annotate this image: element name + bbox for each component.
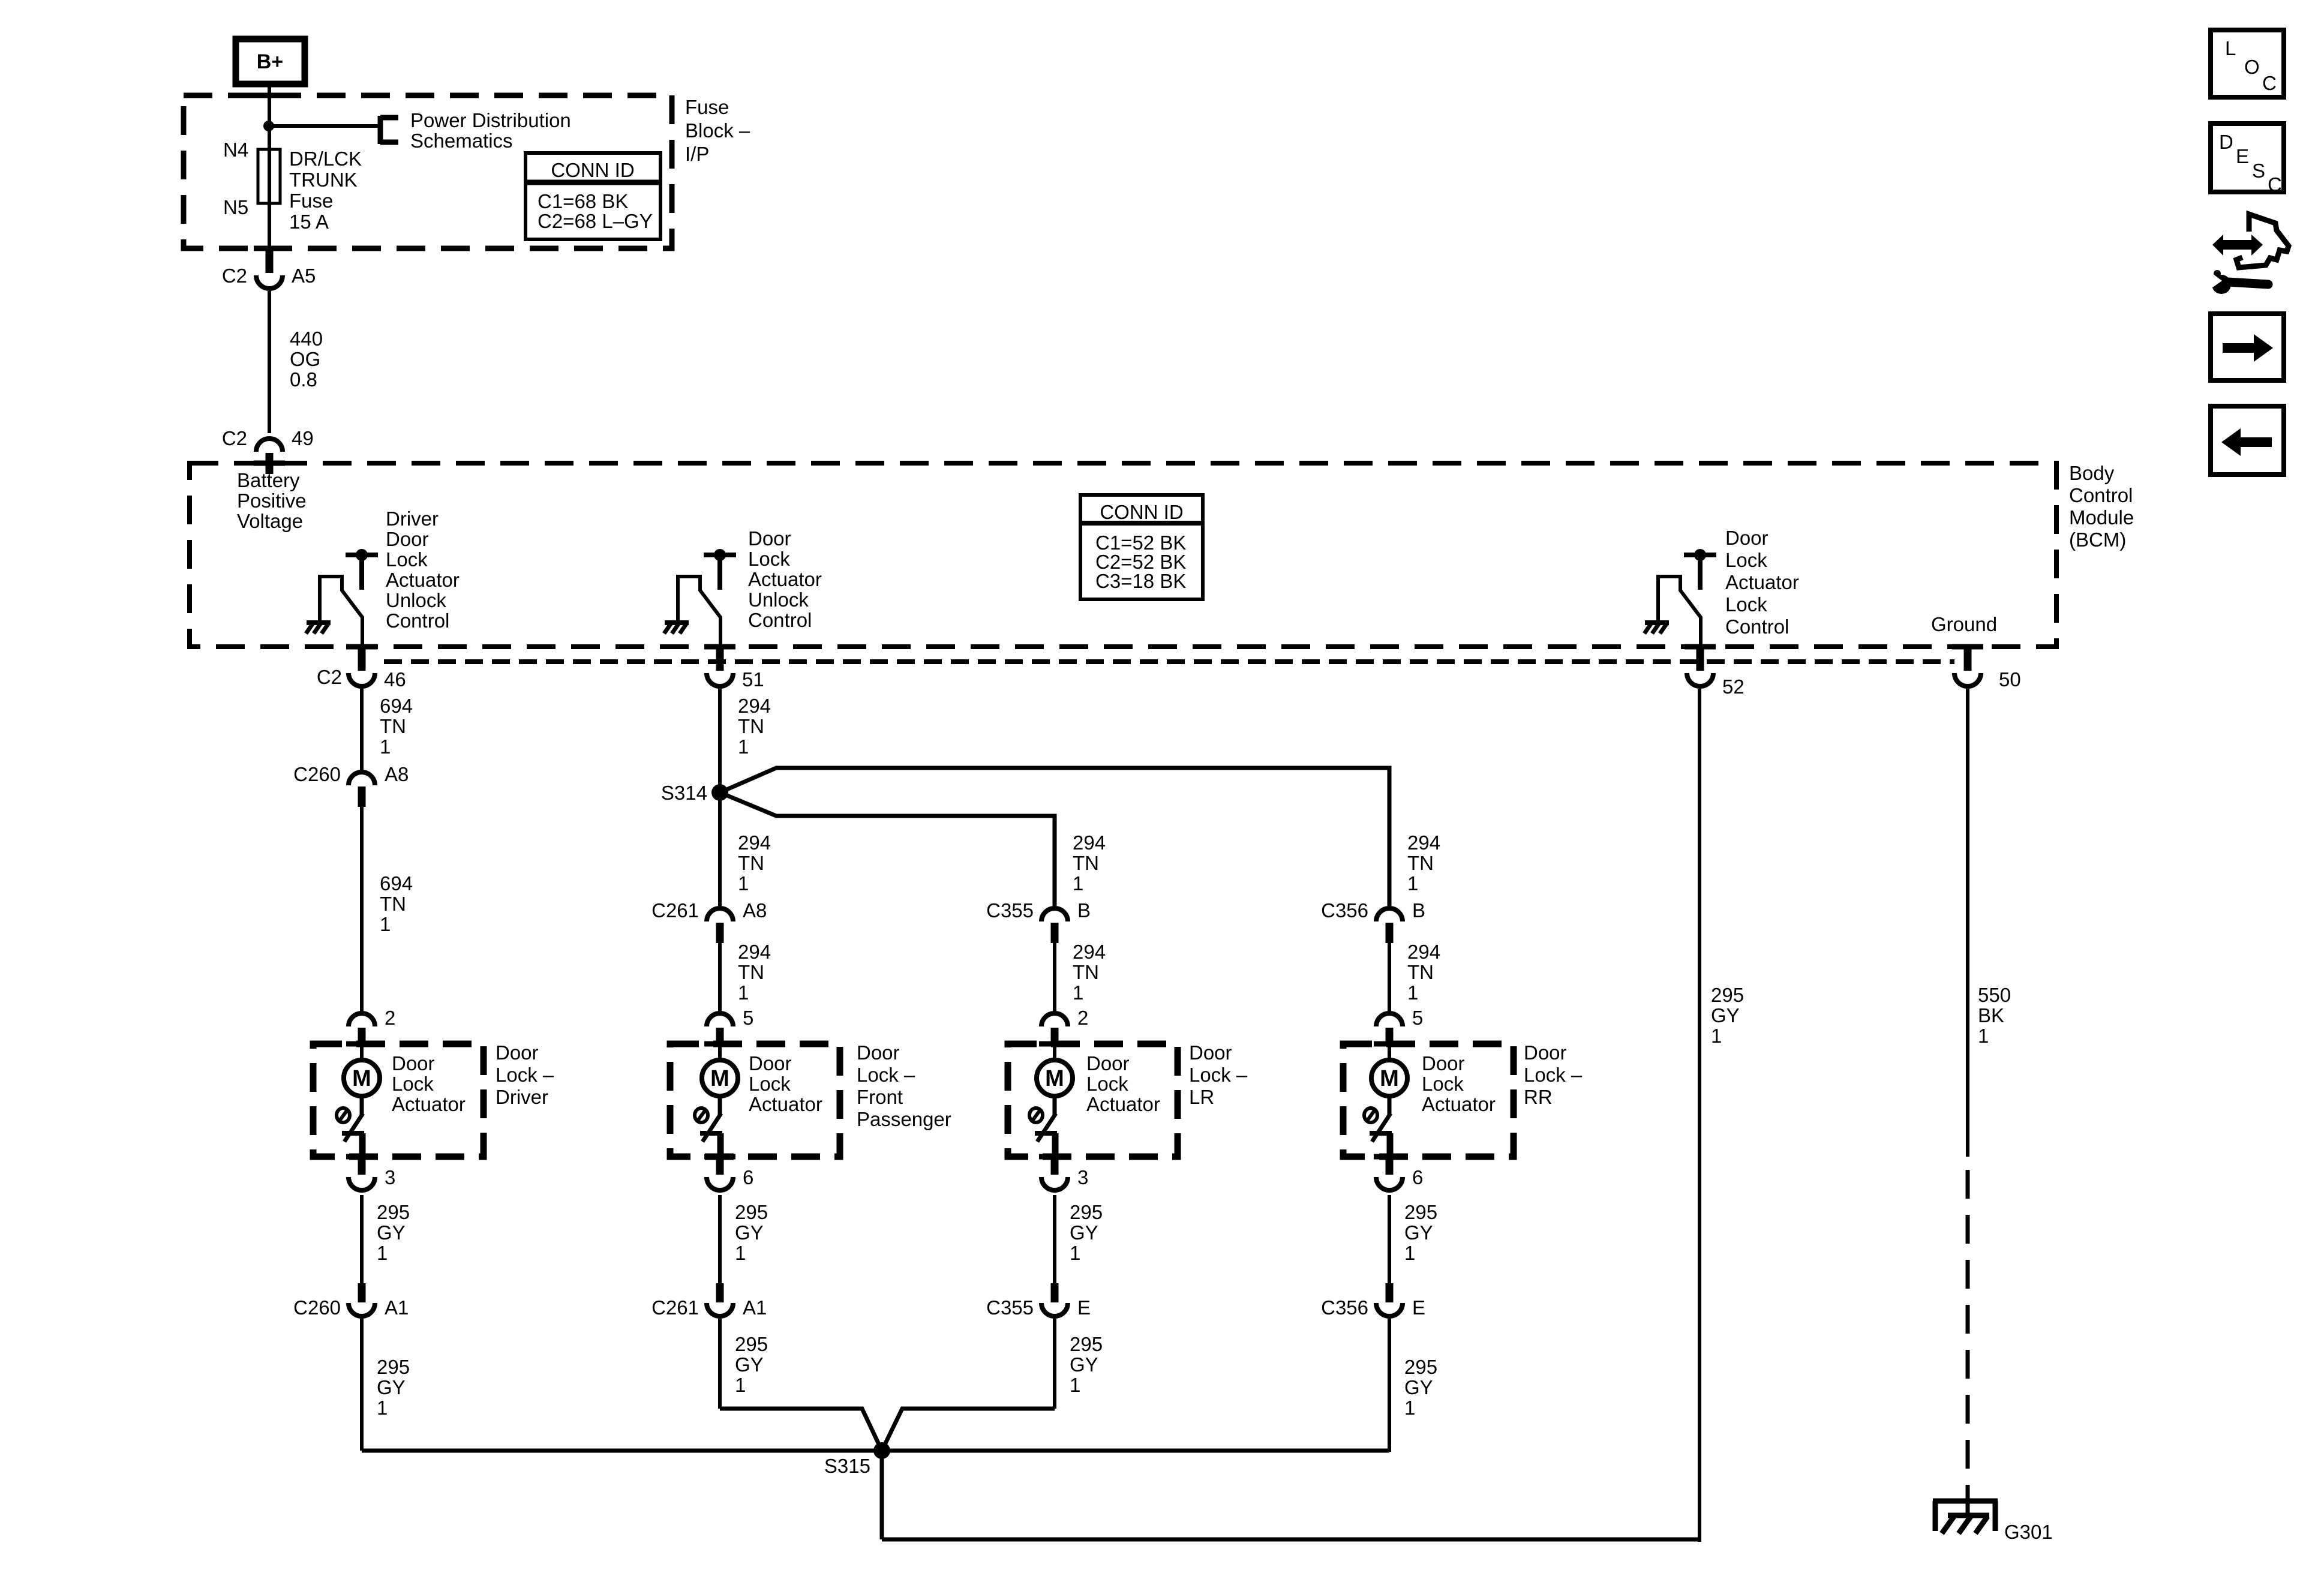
svg-text:C260: C260 [293, 1296, 341, 1319]
svg-text:Schematics: Schematics [410, 130, 513, 152]
svg-text:E: E [1077, 1296, 1091, 1319]
svg-text:C260: C260 [293, 763, 341, 785]
svg-text:Fuse: Fuse [685, 96, 729, 118]
svg-text:694: 694 [380, 695, 413, 717]
svg-text:Actuator: Actuator [1086, 1093, 1160, 1115]
svg-text:S314: S314 [661, 782, 707, 804]
svg-text:2: 2 [1077, 1007, 1088, 1029]
svg-text:Actuator: Actuator [749, 1093, 822, 1115]
svg-text:52: 52 [1722, 676, 1744, 698]
svg-text:TN: TN [738, 715, 764, 737]
svg-text:1: 1 [1070, 1242, 1080, 1264]
svg-text:C: C [2262, 72, 2277, 94]
svg-text:DR/LCK: DR/LCK [289, 148, 362, 170]
svg-text:Lock: Lock [1725, 549, 1767, 571]
svg-text:295: 295 [1404, 1201, 1437, 1223]
svg-text:Lock: Lock [749, 1073, 791, 1095]
svg-text:295: 295 [377, 1356, 410, 1378]
svg-text:C355: C355 [986, 899, 1034, 921]
svg-text:Module: Module [2069, 506, 2134, 529]
svg-text:1: 1 [738, 736, 749, 758]
svg-text:TN: TN [1407, 961, 1434, 983]
svg-text:3: 3 [1077, 1166, 1088, 1188]
svg-text:O: O [2244, 56, 2260, 78]
svg-text:Lock –: Lock – [1189, 1064, 1248, 1086]
svg-text:Control: Control [748, 609, 812, 631]
svg-text:Battery: Battery [237, 469, 300, 491]
svg-text:S: S [2252, 160, 2265, 182]
svg-text:Door: Door [1725, 527, 1768, 549]
svg-text:Actuator: Actuator [1725, 571, 1799, 593]
svg-text:Block –: Block – [685, 119, 750, 142]
svg-text:Voltage: Voltage [237, 510, 303, 532]
svg-text:Control: Control [386, 610, 449, 632]
svg-text:1: 1 [1073, 981, 1083, 1004]
svg-text:5: 5 [743, 1007, 753, 1029]
svg-text:Lock: Lock [1086, 1073, 1128, 1095]
svg-text:Lock: Lock [1725, 593, 1767, 616]
svg-text:Body: Body [2069, 462, 2115, 484]
svg-text:C: C [2268, 173, 2282, 196]
svg-text:TN: TN [1073, 961, 1099, 983]
svg-text:TRUNK: TRUNK [289, 169, 358, 191]
svg-text:294: 294 [738, 941, 771, 963]
svg-text:GY: GY [1070, 1221, 1098, 1244]
svg-text:D: D [2219, 131, 2233, 153]
svg-text:TN: TN [738, 852, 764, 874]
svg-text:Actuator: Actuator [748, 568, 822, 590]
svg-text:Unlock: Unlock [748, 589, 809, 611]
svg-text:1: 1 [380, 913, 391, 935]
svg-text:CONN ID: CONN ID [1100, 501, 1183, 523]
svg-text:C355: C355 [986, 1296, 1034, 1319]
svg-text:294: 294 [738, 695, 771, 717]
svg-text:B: B [1412, 899, 1425, 921]
svg-text:295: 295 [377, 1201, 410, 1223]
svg-text:C261: C261 [651, 899, 699, 921]
svg-text:15 A: 15 A [289, 211, 329, 233]
svg-text:Power Distribution: Power Distribution [410, 109, 571, 131]
svg-text:295: 295 [1070, 1201, 1103, 1223]
svg-text:3: 3 [385, 1166, 395, 1188]
svg-text:6: 6 [743, 1166, 753, 1188]
svg-text:N4: N4 [223, 139, 248, 161]
svg-text:Lock: Lock [392, 1073, 434, 1095]
svg-text:A8: A8 [385, 763, 409, 785]
svg-text:Unlock: Unlock [386, 589, 446, 611]
svg-text:GY: GY [1711, 1004, 1740, 1026]
svg-text:E: E [1412, 1296, 1425, 1319]
svg-text:294: 294 [1073, 831, 1106, 854]
svg-text:2: 2 [385, 1007, 395, 1029]
svg-text:1: 1 [1407, 872, 1418, 894]
svg-text:Door: Door [857, 1041, 900, 1064]
svg-text:(BCM): (BCM) [2069, 529, 2126, 551]
svg-text:CONN ID: CONN ID [551, 159, 634, 181]
svg-text:C356: C356 [1321, 899, 1368, 921]
svg-text:GY: GY [735, 1221, 764, 1244]
svg-text:C3=18 BK: C3=18 BK [1095, 570, 1186, 592]
svg-text:1: 1 [1404, 1242, 1415, 1264]
svg-text:GY: GY [1404, 1376, 1433, 1398]
svg-text:A5: A5 [292, 265, 316, 287]
svg-text:294: 294 [1073, 941, 1106, 963]
svg-text:295: 295 [1404, 1356, 1437, 1378]
svg-text:1: 1 [738, 981, 749, 1004]
svg-text:Driver: Driver [386, 508, 439, 530]
svg-text:Door: Door [1086, 1052, 1130, 1074]
svg-text:L: L [2225, 37, 2236, 59]
svg-text:46: 46 [384, 668, 406, 691]
svg-text:M: M [1045, 1066, 1064, 1091]
svg-text:295: 295 [735, 1333, 768, 1355]
svg-text:GY: GY [377, 1376, 406, 1398]
svg-text:LR: LR [1189, 1086, 1214, 1108]
svg-text:E: E [2236, 145, 2249, 167]
svg-text:295: 295 [735, 1201, 768, 1223]
svg-text:GY: GY [1404, 1221, 1433, 1244]
svg-text:295: 295 [1711, 984, 1744, 1006]
svg-text:I/P: I/P [685, 143, 709, 165]
svg-text:1: 1 [1073, 872, 1083, 894]
svg-text:Lock: Lock [748, 548, 790, 570]
svg-text:TN: TN [1407, 852, 1434, 874]
svg-text:Front: Front [857, 1086, 903, 1108]
svg-text:A1: A1 [743, 1296, 767, 1319]
svg-text:C1=68 BK: C1=68 BK [538, 190, 628, 212]
svg-text:N5: N5 [223, 196, 248, 218]
svg-text:C2: C2 [222, 265, 247, 287]
svg-text:1: 1 [735, 1374, 746, 1396]
svg-text:TN: TN [380, 715, 406, 737]
svg-text:1: 1 [377, 1242, 388, 1264]
svg-text:OG: OG [290, 348, 320, 370]
svg-text:Lock: Lock [386, 548, 428, 571]
svg-text:Actuator: Actuator [386, 569, 460, 591]
svg-text:B: B [1077, 899, 1091, 921]
svg-text:1: 1 [377, 1397, 388, 1419]
svg-text:5: 5 [1412, 1007, 1423, 1029]
svg-text:C356: C356 [1321, 1296, 1368, 1319]
svg-text:Actuator: Actuator [1422, 1093, 1496, 1115]
svg-text:49: 49 [292, 427, 314, 449]
svg-text:TN: TN [380, 893, 406, 915]
svg-text:1: 1 [1070, 1374, 1080, 1396]
svg-text:Door: Door [1189, 1041, 1232, 1064]
svg-text:50: 50 [1999, 668, 2021, 691]
svg-text:1: 1 [1978, 1025, 1989, 1047]
svg-text:C2: C2 [317, 666, 342, 688]
svg-text:Driver: Driver [496, 1086, 548, 1108]
svg-text:Lock –: Lock – [1524, 1064, 1583, 1086]
svg-text:GY: GY [1070, 1353, 1098, 1376]
svg-text:51: 51 [742, 668, 764, 691]
svg-text:694: 694 [380, 872, 413, 894]
svg-text:Lock: Lock [1422, 1073, 1464, 1095]
svg-text:440: 440 [290, 328, 323, 350]
svg-text:550: 550 [1978, 984, 2011, 1006]
svg-text:Positive: Positive [237, 490, 307, 512]
svg-text:A8: A8 [743, 899, 767, 921]
svg-text:M: M [1380, 1066, 1399, 1091]
svg-text:TN: TN [1073, 852, 1099, 874]
svg-text:M: M [352, 1066, 371, 1091]
svg-text:GY: GY [377, 1221, 406, 1244]
svg-text:Door: Door [749, 1052, 792, 1074]
svg-text:1: 1 [1407, 981, 1418, 1004]
svg-text:Control: Control [1725, 616, 1789, 638]
svg-text:294: 294 [1407, 831, 1440, 854]
svg-text:6: 6 [1412, 1166, 1423, 1188]
svg-text:B+: B+ [257, 50, 283, 73]
svg-text:GY: GY [735, 1353, 764, 1376]
svg-text:Passenger: Passenger [857, 1108, 951, 1130]
svg-text:1: 1 [380, 736, 391, 758]
svg-text:Door: Door [1422, 1052, 1465, 1074]
svg-text:1: 1 [735, 1242, 746, 1264]
svg-text:Door: Door [748, 527, 791, 550]
svg-text:Lock –: Lock – [496, 1064, 554, 1086]
svg-text:0.8: 0.8 [290, 368, 317, 391]
svg-text:Door: Door [496, 1041, 539, 1064]
svg-text:Door: Door [392, 1052, 435, 1074]
svg-text:294: 294 [738, 831, 771, 854]
svg-text:C2=68 L–GY: C2=68 L–GY [538, 210, 653, 232]
svg-text:1: 1 [1711, 1025, 1722, 1047]
svg-text:Door: Door [386, 528, 429, 550]
svg-text:M: M [710, 1066, 729, 1091]
svg-text:1: 1 [1404, 1397, 1415, 1419]
svg-text:BK: BK [1978, 1004, 2004, 1026]
svg-text:C2: C2 [222, 427, 247, 449]
svg-text:Door: Door [1524, 1041, 1567, 1064]
svg-text:RR: RR [1524, 1086, 1553, 1108]
svg-text:C261: C261 [651, 1296, 699, 1319]
svg-text:1: 1 [738, 872, 749, 894]
svg-text:G301: G301 [2004, 1521, 2053, 1543]
svg-text:Control: Control [2069, 484, 2133, 506]
svg-text:TN: TN [738, 961, 764, 983]
svg-text:Ground: Ground [1931, 613, 1997, 635]
svg-text:S315: S315 [824, 1455, 870, 1477]
svg-text:Lock –: Lock – [857, 1064, 915, 1086]
svg-text:Actuator: Actuator [392, 1093, 466, 1115]
svg-text:294: 294 [1407, 941, 1440, 963]
svg-text:A1: A1 [385, 1296, 409, 1319]
svg-text:295: 295 [1070, 1333, 1103, 1355]
svg-text:Fuse: Fuse [289, 190, 333, 212]
